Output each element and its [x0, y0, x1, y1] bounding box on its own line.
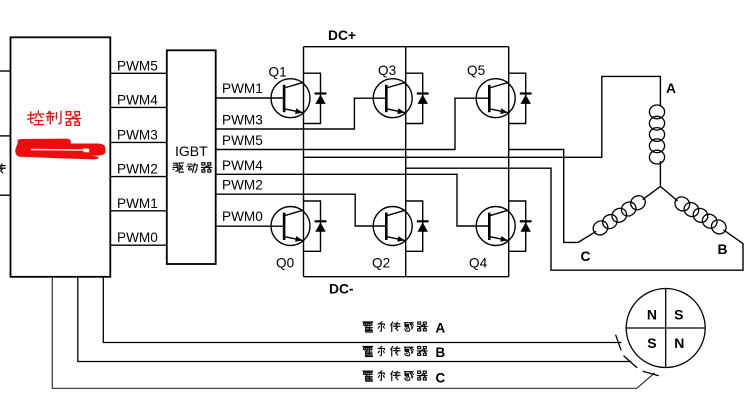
wire PWM1 controller to driver	[110, 210, 167, 212]
svg-text:C: C	[581, 249, 591, 264]
wire PWM3 controller to driver	[110, 141, 167, 143]
wire DC+ rail	[304, 46, 509, 48]
wire hall sensor C	[52, 277, 655, 389]
svg-text:S: S	[647, 335, 656, 351]
diode D5 (free-wheeling)	[509, 73, 532, 123]
svg-text:N: N	[647, 307, 657, 323]
diode D1 (free-wheeling)	[304, 73, 327, 123]
red redaction scribble	[15, 139, 105, 160]
wire phase A (leg1 midpoint to winding A)	[304, 76, 661, 157]
svg-text:PWM5: PWM5	[117, 58, 158, 73]
controller U1 (box)	[11, 37, 111, 276]
svg-text:PWM4: PWM4	[117, 92, 158, 107]
wire PWM0 driver to Q0 base	[216, 225, 285, 227]
transistor Q3	[373, 79, 412, 118]
wire PWM5 driver to Q5 base	[216, 98, 490, 149]
wire PWM2 driver to Q2 base	[216, 194, 387, 226]
svg-text:B: B	[718, 242, 728, 257]
svg-text:PWM2: PWM2	[117, 162, 158, 177]
svg-text:C: C	[436, 370, 446, 385]
diode D2 (free-wheeling)	[406, 201, 429, 251]
transistor Q1	[271, 79, 310, 118]
wire PWM4 controller to driver	[110, 106, 167, 108]
wire PWM3 driver to Q3 base	[216, 98, 387, 129]
label 霍尔传感器 A	[363, 322, 427, 332]
svg-text:N: N	[674, 335, 684, 351]
wire bridge leg 2	[405, 47, 407, 277]
svg-text:Q1: Q1	[269, 65, 287, 80]
label 霍尔传感器 C	[363, 371, 427, 381]
inductor winding phase A	[649, 105, 664, 164]
wire controller left stub 2	[0, 194, 11, 196]
hall A probe slash	[616, 335, 622, 351]
svg-text:PWM2: PWM2	[222, 177, 263, 192]
wire PWM1 driver to Q1 base	[216, 97, 285, 99]
transistor Q2	[373, 207, 412, 246]
label 霍尔传感器 B	[363, 346, 427, 356]
label 传 (clipped at left edge)	[0, 164, 5, 174]
svg-text:Q5: Q5	[467, 63, 485, 78]
rotor magnet (hall target)	[626, 289, 705, 368]
label 控制器 (red)	[28, 111, 81, 125]
wire bridge leg 1	[303, 47, 305, 277]
svg-text:DC+: DC+	[328, 28, 356, 43]
wire hall sensor A	[103, 277, 621, 343]
wire controller left stub 1	[0, 135, 11, 137]
wire phase B (leg2 midpoint to winding B)	[406, 168, 743, 270]
svg-text:B: B	[436, 345, 446, 360]
svg-text:Q3: Q3	[378, 63, 396, 78]
svg-text:PWM1: PWM1	[117, 196, 158, 211]
svg-text:Q4: Q4	[469, 255, 488, 270]
wire PWM5 controller to driver	[110, 72, 167, 74]
transistor Q4	[476, 207, 515, 246]
IGBT driver U2 (box)	[167, 50, 216, 264]
svg-text:PWM1: PWM1	[222, 81, 263, 96]
wire PWM4 driver to Q4 base	[216, 174, 490, 226]
node motor star point	[643, 161, 678, 201]
wire phase C (leg3 midpoint to winding C)	[509, 150, 597, 243]
diode D4 (free-wheeling)	[509, 201, 532, 251]
svg-text:IGBT: IGBT	[175, 143, 208, 159]
wire PWM0 controller to driver	[110, 244, 167, 246]
inductor winding phase C	[590, 193, 648, 238]
svg-text:PWM3: PWM3	[222, 112, 263, 127]
diode D3 (free-wheeling)	[406, 73, 429, 123]
diode D0 (free-wheeling)	[304, 201, 327, 251]
label 驱动器	[173, 163, 212, 173]
wire bridge leg 3	[508, 47, 510, 277]
svg-text:A: A	[436, 320, 446, 335]
wire PWM2 controller to driver	[110, 176, 167, 178]
transistor Q5	[476, 79, 515, 118]
wire DC- rail	[304, 276, 509, 278]
svg-text:PWM4: PWM4	[222, 158, 263, 173]
svg-text:DC-: DC-	[329, 282, 354, 297]
hall C probe slash	[643, 371, 659, 376]
transistor Q0	[271, 207, 310, 246]
svg-text:A: A	[666, 81, 676, 96]
svg-text:PWM0: PWM0	[117, 230, 158, 245]
hall B probe slash	[624, 356, 638, 368]
inductor winding phase B	[672, 194, 728, 237]
wire hall sensor B	[78, 277, 632, 362]
svg-text:PWM3: PWM3	[117, 127, 158, 142]
svg-text:PWM0: PWM0	[222, 209, 263, 224]
svg-text:Q2: Q2	[372, 255, 390, 270]
svg-text:Q0: Q0	[276, 255, 295, 270]
svg-text:S: S	[674, 307, 683, 323]
svg-text:PWM5: PWM5	[222, 133, 263, 148]
wire controller left stub 0	[0, 70, 11, 72]
